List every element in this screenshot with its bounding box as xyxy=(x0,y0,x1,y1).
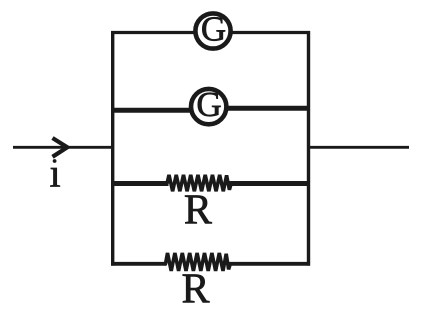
svg-text:G: G xyxy=(196,85,221,124)
svg-text:G: G xyxy=(201,9,226,48)
svg-text:ı: ı xyxy=(49,150,60,195)
svg-text:R: R xyxy=(181,267,209,313)
svg-text:R: R xyxy=(184,188,212,234)
